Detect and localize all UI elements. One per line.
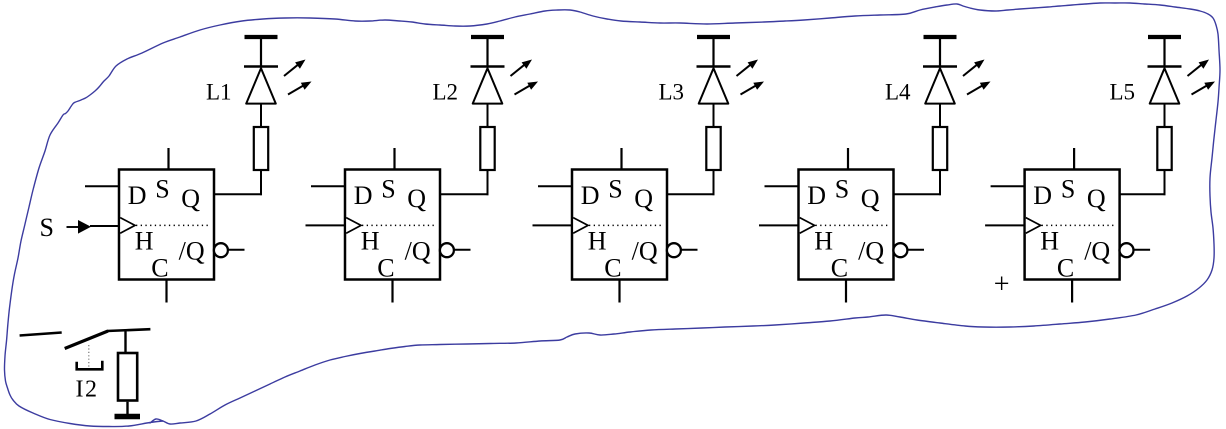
svg-text:L2: L2 [433, 80, 459, 105]
wire clock input [306, 224, 346, 226]
wire LED L3 to resistor [713, 103, 715, 127]
svg-text:S: S [608, 175, 622, 204]
wire D input [311, 185, 345, 187]
svg-text:C: C [831, 254, 848, 283]
supply terminal bar (L2 branch) [471, 37, 504, 66]
clock edge triangle [573, 218, 588, 234]
LED light arrows (L1) [284, 60, 312, 95]
wire D input [538, 185, 572, 187]
flip-flop FF3 [572, 170, 667, 280]
wire D input [765, 185, 799, 187]
wire /Q stub [228, 249, 245, 251]
LED light arrows (L4) [963, 60, 991, 95]
svg-text:H: H [135, 227, 154, 256]
/Q inversion bubble [667, 243, 681, 257]
wire Q output [666, 193, 715, 195]
wire resistor to Q node [1164, 171, 1166, 195]
svg-text:S: S [40, 213, 54, 242]
svg-text:Q: Q [861, 184, 880, 213]
switch I2 actuator dotted link [88, 345, 90, 368]
svg-text:Q: Q [407, 184, 426, 213]
svg-text:I2: I2 [76, 377, 99, 403]
resistor (L4 branch) [933, 127, 947, 170]
wire Q output [1119, 193, 1166, 195]
svg-text:S: S [835, 175, 849, 204]
svg-text:L5: L5 [1110, 80, 1136, 105]
LED light arrows (L3) [737, 60, 765, 95]
wire S pin (top) [393, 148, 395, 170]
LED L1 [244, 67, 278, 104]
svg-text:D: D [807, 181, 826, 210]
wire /Q stub [1134, 249, 1151, 251]
switch I2 lever [65, 331, 108, 349]
svg-text:H: H [588, 227, 607, 256]
wire /Q stub [681, 249, 698, 251]
wire S pin (top) [1073, 148, 1075, 170]
supply terminal bar (L4 branch) [924, 37, 957, 66]
svg-text:C: C [377, 254, 394, 283]
svg-text:D: D [354, 181, 373, 210]
wire clock input [533, 224, 573, 226]
svg-text:D: D [1033, 181, 1052, 210]
svg-text:H: H [1040, 227, 1059, 256]
wire C pin (bottom) [1071, 280, 1073, 303]
resistor (L5 branch) [1157, 127, 1171, 170]
svg-text:/Q: /Q [179, 237, 205, 266]
dotted separator [816, 224, 890, 226]
resistor (I2 branch) [118, 353, 137, 401]
wire clock input [985, 224, 1025, 226]
resistor (L1 branch) [254, 127, 268, 170]
wire S pin (top) [167, 148, 169, 170]
wire resistor to ground [126, 402, 128, 414]
wire LED L4 to resistor [939, 103, 941, 127]
/Q inversion bubble [893, 243, 907, 257]
svg-text:S: S [1061, 175, 1075, 204]
wire S pin (top) [847, 148, 849, 170]
wire resistor to Q node [713, 171, 715, 195]
svg-text:L3: L3 [659, 80, 685, 105]
wire /Q stub [908, 249, 925, 251]
switch I2 fixed contact [20, 333, 62, 336]
flip-flop FF5 [1025, 170, 1120, 280]
wire C pin (bottom) [618, 280, 620, 303]
clock edge triangle [120, 218, 135, 234]
dotted separator [362, 224, 436, 226]
wire resistor to Q node [260, 171, 262, 195]
/Q inversion bubble [440, 243, 454, 257]
svg-text:/Q: /Q [858, 237, 884, 266]
dotted separator [589, 224, 663, 226]
svg-text:S: S [155, 175, 169, 204]
wire resistor to Q node [939, 171, 941, 195]
ground [115, 414, 141, 420]
LED light arrows (L5) [1188, 60, 1216, 95]
svg-text:/Q: /Q [405, 237, 431, 266]
wire LED L1 to resistor [260, 103, 262, 127]
svg-text:H: H [361, 227, 380, 256]
svg-text:L4: L4 [885, 80, 911, 105]
dotted separator [136, 224, 210, 226]
svg-text:/Q: /Q [1084, 237, 1110, 266]
LED L2 [471, 67, 505, 104]
wire /Q stub [454, 249, 471, 251]
svg-text:C: C [604, 254, 621, 283]
supply terminal bar (L5 branch) [1148, 37, 1181, 66]
LED L3 [697, 67, 731, 104]
supply terminal bar (L3 branch) [697, 37, 730, 66]
svg-text:S: S [381, 175, 395, 204]
switch I2 actuator bracket [77, 361, 103, 370]
/Q inversion bubble [1120, 243, 1134, 257]
wire D input [85, 185, 119, 187]
LED L4 [923, 67, 957, 104]
wire LED L2 to resistor [487, 103, 489, 127]
wire C pin (bottom) [391, 280, 393, 303]
LED L5 [1148, 67, 1182, 104]
wire Q output [893, 193, 942, 195]
svg-text:C: C [151, 254, 168, 283]
svg-text:C: C [1057, 254, 1074, 283]
svg-text:Q: Q [181, 184, 200, 213]
input arrow S [67, 220, 120, 234]
svg-text:+: + [994, 269, 1010, 300]
svg-text:/Q: /Q [632, 237, 658, 266]
svg-text:D: D [128, 181, 147, 210]
wire C pin (bottom) [845, 280, 847, 303]
flip-flop FF1 [119, 170, 214, 280]
svg-text:Q: Q [1087, 184, 1106, 213]
clock edge triangle [1026, 218, 1041, 234]
svg-text:L1: L1 [206, 80, 232, 105]
LED light arrows (L2) [511, 60, 539, 95]
flip-flop FF4 [799, 170, 894, 280]
wire C pin (bottom) [165, 280, 167, 303]
clock edge triangle [800, 218, 815, 234]
flip-flop FF2 [345, 170, 440, 280]
wire S pin (top) [620, 148, 622, 170]
resistor (L3 branch) [706, 127, 720, 170]
wire resistor to Q node [487, 171, 489, 195]
wire Q output [439, 193, 489, 195]
svg-text:Q: Q [634, 184, 653, 213]
dotted separator [1042, 224, 1116, 226]
svg-text:D: D [581, 181, 600, 210]
svg-text:H: H [814, 227, 833, 256]
wire LED L5 to resistor [1164, 103, 1166, 127]
/Q inversion bubble [214, 243, 228, 257]
wire clock input [759, 224, 799, 226]
resistor (L2 branch) [480, 127, 494, 170]
supply terminal bar (L1 branch) [245, 37, 278, 66]
wire Q output [213, 193, 262, 195]
clock edge triangle [346, 218, 361, 234]
wire D input [991, 185, 1025, 187]
wire switch to resistor [107, 329, 150, 352]
